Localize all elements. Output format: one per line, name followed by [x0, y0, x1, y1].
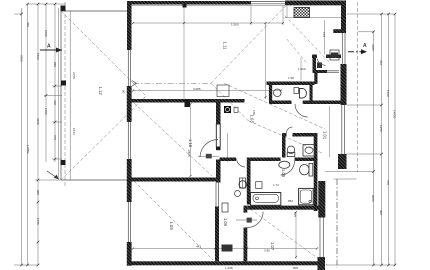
svg-text:180: 180 [252, 110, 256, 115]
tiny WC top wall b [326, 55, 341, 59]
svg-text:350: 350 [26, 22, 30, 27]
svg-text:1.98: 1.98 [288, 76, 294, 80]
roof hip D4 [211, 6, 286, 83]
roof hip D6 [285, 16, 330, 63]
terrace left edge [60, 11, 62, 180]
right window 2 [342, 105, 345, 154]
svg-text:3.80: 3.80 [264, 249, 270, 253]
WC counter sink [303, 145, 315, 157]
top window [251, 2, 285, 4]
dim line living room y90 [133, 90, 281, 92]
bathroom top wall right part [295, 158, 318, 162]
svg-text:14050: 14050 [393, 110, 397, 119]
dim line living room y23 [133, 22, 283, 24]
left wall seg4 [127, 242, 132, 266]
svg-text:9050: 9050 [371, 195, 375, 202]
utility fixtures [222, 245, 233, 252]
svg-text:A: A [47, 44, 51, 50]
svg-text:375: 375 [53, 135, 57, 140]
center WC toilet [300, 89, 307, 99]
boiler utility [239, 181, 247, 189]
svg-text:850: 850 [288, 199, 293, 203]
room 1.07 left wall upper [244, 206, 248, 213]
svg-text:1.560: 1.560 [231, 23, 239, 27]
door hall [295, 104, 308, 117]
door tiny WC [317, 59, 326, 66]
svg-text:1.05: 1.05 [281, 169, 286, 178]
svg-text:90: 90 [122, 90, 126, 94]
hall top wall right part [303, 101, 341, 105]
right lower window [320, 218, 323, 259]
bathroom bottom wall [247, 206, 318, 210]
door 1.10 [200, 140, 218, 158]
left wall seg2 [127, 86, 132, 122]
roof hip D2 [61, 96, 146, 180]
dim line x190 room 1.10 [190, 104, 192, 176]
door 1.07 [247, 212, 263, 228]
wall V1 upper [216, 103, 221, 125]
dim line corridor 1.01 [329, 106, 331, 157]
bottom right corner block [318, 257, 326, 270]
dim chain bottom y248 [133, 248, 317, 250]
radiator outside bathroom [240, 178, 246, 188]
roof overhang dashed left [64, 2, 66, 186]
bathroom top wall [251, 158, 281, 162]
inner face top wall [132, 5, 342, 7]
WC left wall [282, 133, 286, 158]
right window 1 [342, 33, 345, 64]
svg-text:13850: 13850 [26, 145, 30, 154]
roof valley D5b [248, 121, 322, 154]
dim line L2 [27, 4, 29, 265]
shower [299, 188, 314, 204]
hall top wall [269, 101, 292, 105]
svg-text:2405: 2405 [187, 150, 191, 157]
svg-text:1.298: 1.298 [225, 266, 233, 270]
center WC basin [274, 89, 282, 97]
kitchen counter edge [285, 17, 341, 19]
door utility [237, 159, 246, 168]
svg-text:1150: 1150 [44, 108, 48, 115]
wall H1 living/1.10 [128, 99, 245, 103]
WC top wall b [293, 133, 318, 137]
top wall east segment [285, 1, 346, 6]
svg-text:1813: 1813 [72, 128, 76, 135]
WC toilet [287, 146, 295, 157]
roof ridge dashdot [133, 82, 211, 84]
terrace edge right [334, 178, 357, 180]
roof hip D10 room 1.10 [134, 103, 212, 176]
svg-text:2150: 2150 [72, 72, 76, 79]
left wall seg1 [127, 1, 132, 50]
roof hip D6b [287, 39, 306, 62]
svg-text:155: 155 [322, 32, 326, 37]
svg-text:1250: 1250 [379, 125, 383, 132]
wall V1 lower [216, 160, 221, 183]
roof valley shallow [224, 83, 325, 129]
section arrow left [40, 49, 62, 51]
dim line kitchen [324, 20, 326, 55]
dim ticks right [372, 13, 396, 267]
svg-text:1560: 1560 [36, 53, 40, 60]
svg-text:1.74: 1.74 [273, 183, 279, 187]
dim line R1 [373, 31, 375, 265]
svg-text:443: 443 [196, 245, 201, 249]
right column block [338, 154, 347, 169]
terrace top edge [61, 10, 127, 12]
svg-text:755: 755 [386, 180, 390, 185]
interior dim ticks [132, 22, 318, 258]
roof valley D5 [211, 83, 248, 120]
wall V1 stub [216, 147, 221, 150]
right lower wall room 1.07 [318, 181, 325, 218]
top wall west segment [127, 1, 251, 5]
bottom wall [127, 261, 318, 265]
terrace post middle [61, 81, 66, 86]
svg-text:1.07: 1.07 [270, 242, 275, 251]
wall V1 pocket [216, 124, 220, 147]
dim line L5 [54, 4, 56, 162]
left wall seg3 [127, 159, 132, 202]
bathroom right wall [314, 133, 318, 211]
svg-text:1.09: 1.09 [169, 222, 174, 231]
tiny WC toilet [317, 63, 322, 69]
svg-text:1.560: 1.560 [298, 67, 306, 71]
svg-text:1.03: 1.03 [250, 115, 255, 124]
kitchen counter left edge [286, 6, 288, 18]
svg-text:3685: 3685 [371, 44, 375, 51]
center WC top wall [267, 82, 315, 86]
door WC [287, 127, 293, 133]
svg-text:1.11: 1.11 [223, 42, 228, 51]
left window 1 [128, 50, 130, 86]
WC top wall [282, 133, 287, 137]
dim line R3 [388, 14, 390, 265]
svg-text:505: 505 [155, 0, 160, 4]
utility/bath left wall [247, 158, 251, 205]
room 1.07 left wall lower [244, 228, 248, 262]
kitchen flue [294, 8, 310, 18]
svg-text:365: 365 [53, 100, 57, 105]
column with symbol [224, 106, 231, 113]
extension window left edge [250, 6, 252, 26]
svg-text:905: 905 [293, 266, 298, 270]
svg-text:980: 980 [53, 62, 57, 67]
section arrow right [348, 51, 367, 53]
boundary dashdot bottom right [336, 179, 338, 268]
terrace post bottom [61, 160, 66, 165]
tiny WC top wall [312, 55, 317, 59]
dim line x265 [265, 23, 267, 99]
roof hip D8 room 1.09 [134, 181, 213, 260]
svg-text:3.685: 3.685 [193, 87, 201, 91]
svg-text:980: 980 [379, 210, 383, 215]
svg-text:A: A [363, 43, 367, 49]
bathroom sink [279, 161, 290, 168]
bathtub [251, 193, 281, 206]
dim ticks left [20, 3, 56, 267]
svg-text:1560: 1560 [386, 90, 390, 97]
dim line L6 [58, 8, 60, 180]
terrace corner arrow [47, 171, 58, 179]
wall H2 room 1.09 top [132, 178, 217, 182]
dim line L3 [37, 4, 39, 265]
wall y70 [315, 70, 328, 73]
utility left wall door (light) [216, 183, 219, 207]
terrace bottom edge [61, 179, 132, 181]
right wall step bar [333, 29, 346, 33]
left window 2 [128, 122, 130, 159]
dim line terrace [69, 11, 71, 180]
roof overhang dashed right [357, 2, 359, 172]
dim line x296 room 1.07 [295, 212, 297, 259]
extension lines left [14, 4, 66, 265]
wall V x314 [314, 73, 317, 84]
svg-text:352: 352 [379, 60, 383, 65]
center WC cistern [294, 88, 299, 94]
center WC left wall [269, 84, 272, 101]
right wall seg2 [341, 64, 347, 105]
extension lines right [326, 14, 395, 265]
svg-text:1.10: 1.10 [188, 139, 193, 148]
ridge left arrow [132, 81, 137, 87]
dim line L1 [21, 8, 23, 265]
svg-text:1.06: 1.06 [223, 218, 228, 227]
dim line x301 [300, 58, 302, 81]
roof hip D1 [61, 11, 146, 96]
tiny WC left wall [313, 58, 317, 73]
svg-text:1755: 1755 [36, 218, 40, 225]
fireplace living room [217, 85, 229, 97]
dim line R4 [394, 14, 396, 265]
washing machine bathroom [256, 182, 262, 189]
extension window right edge [282, 6, 284, 26]
partition line x184 [183, 6, 185, 100]
svg-text:3685: 3685 [36, 118, 40, 125]
svg-text:1.12: 1.12 [98, 87, 103, 96]
bathroom toilet [300, 164, 313, 177]
dim line L4 [45, 4, 47, 162]
svg-text:2405: 2405 [44, 30, 48, 37]
left window 3 [128, 202, 130, 242]
radiator 1.10 [234, 107, 238, 112]
wall box right margin [330, 50, 339, 60]
door 1.10 dim [198, 155, 219, 157]
svg-text:905: 905 [36, 190, 40, 195]
utility left wall lower [215, 207, 219, 262]
utility top wall [220, 158, 237, 162]
step edge right [325, 171, 347, 173]
dim line door 1.10 [227, 133, 229, 162]
svg-text:365: 365 [293, 212, 297, 217]
svg-text:1.01: 1.01 [323, 131, 328, 140]
dim line R2 [381, 14, 383, 265]
svg-text:7550: 7550 [20, 55, 24, 62]
center WC right wall [310, 84, 313, 101]
door 1.07 dim [236, 219, 257, 221]
window y70 [327, 71, 339, 73]
right wall seg1 [341, 1, 346, 34]
roof hip D9 room 1.07 [250, 209, 327, 265]
top wall stub column [183, 5, 187, 8]
column C1 [185, 99, 191, 107]
terrace post top [61, 6, 66, 12]
door bathroom [281, 161, 295, 175]
